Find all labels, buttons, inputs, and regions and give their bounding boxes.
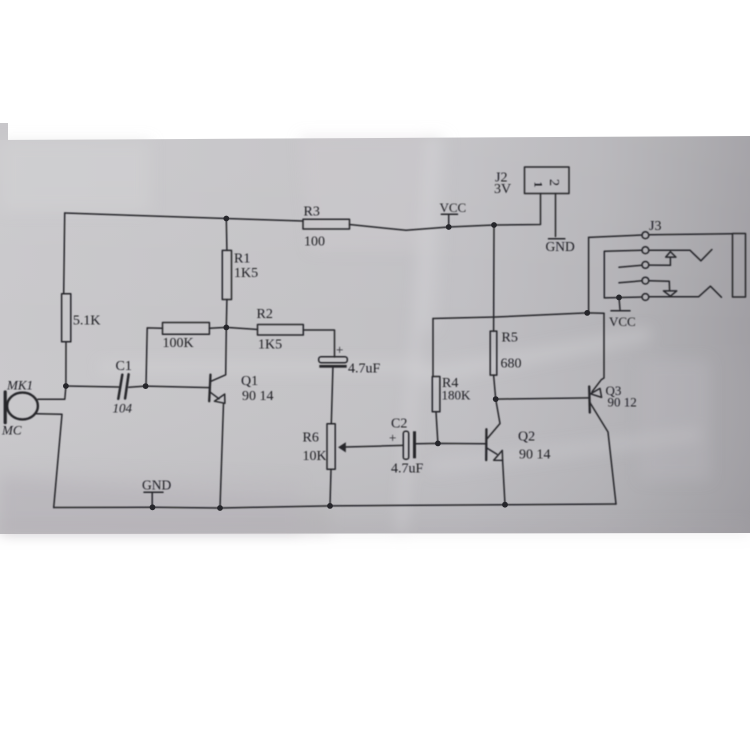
svg-text:GND: GND	[546, 239, 575, 254]
svg-text:MC: MC	[1, 423, 22, 438]
svg-text:GND: GND	[142, 478, 171, 493]
svg-text:3V: 3V	[494, 182, 511, 197]
svg-text:104: 104	[113, 401, 133, 416]
svg-text:MK1: MK1	[6, 378, 33, 393]
svg-text:Q2: Q2	[518, 430, 535, 445]
svg-text:J3: J3	[649, 219, 661, 234]
svg-text:180K: 180K	[442, 388, 472, 403]
svg-text:4.7uF: 4.7uF	[391, 462, 424, 477]
svg-text:R1: R1	[234, 252, 250, 267]
svg-text:90 14: 90 14	[242, 389, 274, 404]
svg-text:1K5: 1K5	[258, 338, 282, 353]
svg-text:R2: R2	[257, 307, 273, 322]
svg-text:VCC: VCC	[609, 314, 636, 329]
svg-text:C1: C1	[116, 359, 132, 374]
svg-text:+: +	[389, 430, 396, 445]
svg-text:4.7uF: 4.7uF	[348, 362, 381, 377]
svg-text:R6: R6	[303, 431, 319, 446]
svg-text:10K: 10K	[303, 449, 327, 464]
svg-text:100: 100	[304, 235, 325, 250]
svg-text:100K: 100K	[163, 336, 194, 351]
svg-text:Q1: Q1	[241, 374, 258, 389]
svg-text:+: +	[336, 342, 343, 357]
svg-text:5.1K: 5.1K	[73, 314, 101, 329]
svg-text:2: 2	[546, 179, 561, 186]
svg-text:VCC: VCC	[440, 200, 467, 215]
svg-text:R5: R5	[502, 331, 518, 346]
svg-text:R3: R3	[304, 205, 320, 220]
svg-text:1K5: 1K5	[234, 266, 258, 281]
svg-text:90 14: 90 14	[519, 448, 551, 463]
svg-text:1: 1	[532, 182, 546, 188]
svg-text:680: 680	[501, 357, 522, 372]
svg-text:90 12: 90 12	[608, 395, 637, 410]
